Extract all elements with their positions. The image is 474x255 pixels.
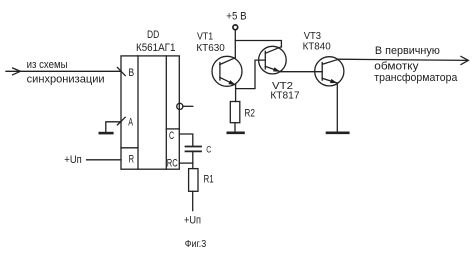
- transistor VT1 emitter: [220, 78, 236, 86]
- transistor VT3 collector: [322, 60, 338, 65]
- capacitor C: [186, 146, 202, 148]
- pin A slash: [117, 117, 125, 125]
- svg-text:R2: R2: [244, 107, 255, 119]
- transistor VT2 emitter: [265, 66, 280, 71]
- svg-text:обмотку: обмотку: [374, 60, 419, 72]
- svg-text:КТ840: КТ840: [303, 41, 331, 53]
- svg-text:B: B: [128, 67, 134, 79]
- wire separator above C box: [166, 128, 179, 130]
- input arrowhead: [13, 68, 21, 75]
- resistor R2: [230, 102, 240, 123]
- transistor VT3 emitter arrow: [330, 79, 337, 83]
- transistor VT1 collector: [220, 58, 235, 65]
- wire pin RC junction to capacitor and R1: [179, 162, 193, 164]
- svg-text:КТ630: КТ630: [196, 42, 225, 54]
- wire +5V branch to VT2 collector: [235, 41, 281, 48]
- transistor VT2 base bar: [264, 51, 266, 69]
- svg-text:RC: RC: [167, 157, 178, 169]
- wire output line to transformer: [338, 59, 468, 60]
- svg-text:VT1: VT1: [197, 31, 213, 43]
- svg-text:A: A: [128, 117, 133, 129]
- node +5V terminal: [233, 25, 238, 30]
- svg-text:трансформатора: трансформатора: [374, 72, 458, 84]
- ground at pin A: [100, 132, 113, 135]
- wire VT1 emitter down to R2: [235, 85, 237, 102]
- transistor VT2 emitter arrow: [273, 67, 280, 72]
- wire VT3 emitter to ground: [336, 83, 338, 132]
- wire separator above R box: [121, 147, 138, 149]
- transistor Q1 VT1 circle: [212, 56, 242, 86]
- wire internal divider 1: [137, 56, 139, 169]
- transistor Q2 VT2 circle: [259, 46, 287, 74]
- transistor VT3 base bar: [321, 63, 323, 81]
- svg-text:C: C: [169, 130, 174, 142]
- svg-text:R: R: [129, 154, 135, 166]
- node inverted output circle: [177, 103, 183, 109]
- svg-text:синхронизации: синхронизации: [27, 73, 105, 85]
- wire R1 to +Un: [192, 191, 194, 210]
- svg-text:+5 В: +5 В: [226, 11, 246, 23]
- svg-text:В первичную: В первичную: [375, 45, 440, 57]
- wire pin C to capacitor: [179, 134, 193, 146]
- svg-text:КТ817: КТ817: [270, 89, 299, 101]
- resistor R1: [189, 169, 198, 192]
- pin B slash: [117, 67, 125, 75]
- transistor Q3 VT3 circle: [315, 57, 344, 86]
- wire VT2 emitter to VT3 base: [280, 71, 322, 73]
- ground at VT3: [327, 132, 348, 135]
- wire +5V vertical to VT1 collector: [234, 30, 236, 58]
- svg-text:+Uп: +Uп: [64, 154, 82, 166]
- wire VT1 emitter branch to VT2 base: [236, 60, 266, 89]
- wire input line from left to pin B: [6, 70, 121, 72]
- transistor VT1 emitter arrow: [228, 80, 235, 85]
- transistor VT1 base bar: [219, 63, 221, 80]
- svg-text:DD: DD: [147, 29, 159, 41]
- transistor VT2 collector: [265, 47, 281, 54]
- wire R2 to ground: [234, 123, 236, 132]
- svg-text:из схемы: из схемы: [27, 59, 68, 71]
- svg-text:Фиг.3: Фиг.3: [185, 239, 207, 250]
- transistor VT3 emitter: [322, 78, 337, 83]
- wire inverted output stub: [183, 105, 193, 107]
- svg-text:К561АГ1: К561АГ1: [136, 42, 175, 54]
- wire +Up to pin R: [87, 159, 121, 161]
- wire internal divider 2: [165, 56, 167, 169]
- svg-text:R1: R1: [204, 174, 214, 186]
- op-amp U1 (IC DD K561AG1 body): [121, 56, 179, 169]
- wire pin A to ground: [106, 122, 121, 132]
- svg-text:C: C: [206, 144, 211, 155]
- output arrowhead: [461, 56, 468, 64]
- svg-text:+Uп: +Uп: [184, 214, 201, 226]
- ground at R2: [228, 132, 244, 135]
